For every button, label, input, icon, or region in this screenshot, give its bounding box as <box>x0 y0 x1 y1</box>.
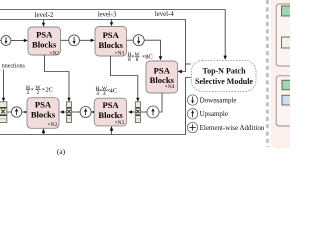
wire D2 to encoder PSA E3 <box>79 39 91 41</box>
svg-text:Element-wise Addition: Element-wise Addition <box>200 124 265 132</box>
svg-text:nnections: nnections <box>2 64 26 70</box>
arrow bus up into decoder PSA block xN2 <box>43 133 45 135</box>
arrowhead into bottleneck PSA right <box>178 70 182 74</box>
svg-text:×N3: ×N3 <box>114 50 124 56</box>
wire level bus 2 <box>0 20 191 72</box>
panel (b) box 1 <box>276 4 296 66</box>
arrow P1 into decoder PSA xN2 <box>63 111 66 113</box>
svg-text:2: 2 <box>37 90 40 96</box>
skip wire from E2 to patch map P1 <box>45 55 70 98</box>
downsample circle D2 <box>69 35 80 46</box>
svg-text:×N2: ×N2 <box>49 51 59 57</box>
svg-text:level-3: level-3 <box>98 12 117 19</box>
legend upsample <box>187 109 228 119</box>
dashed separator <box>266 0 269 147</box>
svg-text:Blocks: Blocks <box>31 110 56 120</box>
arrow bus up into decoder PSA block xN3 <box>111 130 113 134</box>
svg-text:level-4: level-4 <box>155 11 174 18</box>
svg-text:2C: 2C <box>46 87 53 94</box>
svg-text:4: 4 <box>103 91 106 97</box>
svg-text:Top-N Patch: Top-N Patch <box>202 67 246 76</box>
skip wire level-1 into patch map P0 <box>3 70 5 99</box>
arrow level-2 into encoder PSA E2 <box>43 19 45 23</box>
patch map P0 <box>0 102 7 123</box>
downsample circle D3 <box>133 35 144 46</box>
panel (b) pale patch <box>282 37 293 48</box>
label H/8 x W/8 x 8C <box>127 52 152 63</box>
wire bottleneck down to U3 <box>159 93 162 112</box>
panel (b) green patch 2 <box>282 80 293 90</box>
wire U1 to patch map P0 <box>7 111 11 113</box>
svg-text:Upsample: Upsample <box>200 110 228 118</box>
upsample circle U2 <box>80 107 91 118</box>
decoder PSA block (xN2) <box>27 98 59 129</box>
legend downsample <box>187 95 236 105</box>
encoder PSA block E3 (xN3) <box>95 27 127 57</box>
upsample circle U3 <box>147 106 159 118</box>
svg-text:×N2: ×N2 <box>47 122 57 128</box>
downsample circle D1 <box>0 36 11 46</box>
panel (b) green patch 1 <box>282 6 293 16</box>
wire E3 to D3 <box>127 39 134 41</box>
svg-text:Selective Module: Selective Module <box>195 77 253 86</box>
label H/4 x W/4 x 4C <box>96 86 117 97</box>
wire module output to decoder bus <box>0 78 191 135</box>
arrowhead into Top-N module <box>223 56 227 60</box>
svg-text:4C: 4C <box>110 87 117 94</box>
svg-text:×N4: ×N4 <box>165 84 175 90</box>
panel (b) blue patch <box>282 95 293 105</box>
svg-text:×: × <box>42 87 45 93</box>
svg-text:level-2: level-2 <box>35 12 54 19</box>
wire decoder xN2 to U1 <box>22 111 27 113</box>
label H/2 x W/2 x 2C <box>26 85 53 96</box>
svg-text:PSA: PSA <box>102 100 119 110</box>
svg-text:PSA: PSA <box>103 30 120 40</box>
svg-text:Blocks: Blocks <box>32 40 57 50</box>
svg-text:Downsample: Downsample <box>200 97 237 105</box>
patch map P1 <box>67 102 72 123</box>
encoder PSA block E2 (xN2) <box>28 27 61 57</box>
bottleneck PSA block (xN4) <box>146 61 178 93</box>
panel (b) background <box>271 0 291 149</box>
svg-text:PSA: PSA <box>154 66 171 76</box>
wire E2 to D2 <box>61 39 69 41</box>
wire U3 to patch map P2 <box>141 111 147 113</box>
Top-N Patch Selective Module <box>192 60 257 91</box>
svg-text:2: 2 <box>27 90 30 96</box>
svg-text:(a): (a) <box>57 147 66 156</box>
wire U2 to patch map P1 <box>72 111 80 113</box>
legend element-wise addition <box>187 122 264 132</box>
svg-text:PSA: PSA <box>35 100 52 110</box>
svg-text:×N3: ×N3 <box>114 120 124 126</box>
svg-text:Blocks: Blocks <box>98 110 123 120</box>
patch map P2 <box>135 102 140 123</box>
wire decoder xN3 to U2 <box>91 111 94 113</box>
svg-text:Blocks: Blocks <box>99 40 124 50</box>
skip wire from E3 to patch map P2 <box>111 56 138 98</box>
decoder PSA block (xN3) <box>94 98 126 126</box>
arrow level-3 into encoder PSA E3 <box>111 19 113 23</box>
wire level-4 bus <box>0 10 225 57</box>
svg-text:×: × <box>31 87 34 93</box>
arrow P2 into decoder PSA xN3 <box>131 111 135 113</box>
upsample circle U1 <box>11 107 21 117</box>
wire D3 to bottleneck PSA <box>144 40 160 57</box>
svg-text:8: 8 <box>136 57 139 63</box>
wire D1 to encoder PSA E2 <box>11 40 25 42</box>
panel (b) box 2 <box>276 76 296 126</box>
svg-text:8C: 8C <box>145 54 152 61</box>
svg-text:PSA: PSA <box>36 29 53 39</box>
